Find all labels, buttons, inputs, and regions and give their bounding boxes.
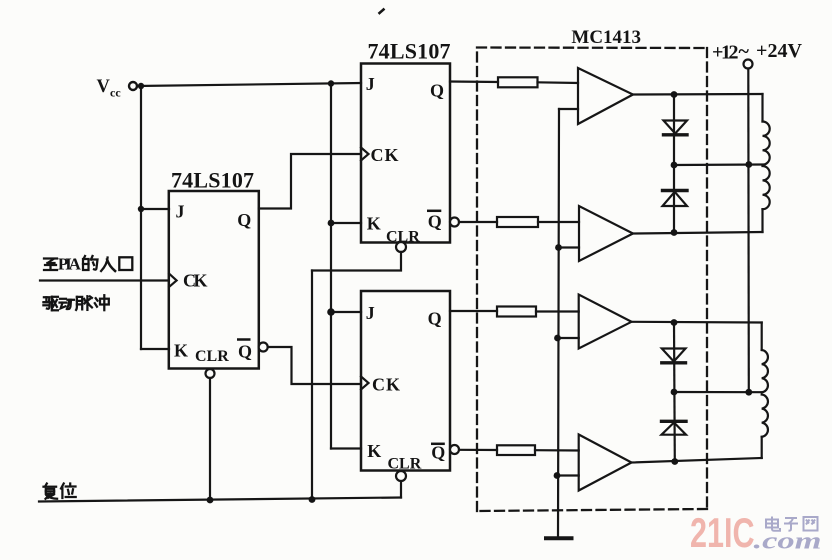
svg-text:Q: Q bbox=[431, 442, 445, 462]
svg-text:CLR: CLR bbox=[386, 229, 420, 246]
svg-text:MC1413: MC1413 bbox=[571, 27, 641, 48]
svg-text:PIA: PIA bbox=[58, 255, 82, 274]
svg-text:~: ~ bbox=[739, 41, 750, 63]
svg-text:74LS107: 74LS107 bbox=[171, 168, 254, 193]
svg-text:K: K bbox=[174, 341, 188, 361]
svg-text:CLR: CLR bbox=[388, 456, 422, 473]
svg-text:J: J bbox=[366, 74, 375, 94]
svg-text:21IC: 21IC bbox=[690, 509, 755, 556]
svg-text:.com: .com bbox=[754, 529, 822, 555]
svg-text:CLR: CLR bbox=[195, 348, 229, 365]
svg-text:CK: CK bbox=[371, 145, 399, 165]
svg-text:Q: Q bbox=[428, 211, 442, 231]
svg-text:K: K bbox=[367, 441, 381, 461]
svg-text:Q: Q bbox=[237, 210, 251, 230]
svg-text:74LS107: 74LS107 bbox=[368, 39, 451, 64]
svg-text:cc: cc bbox=[110, 86, 121, 100]
svg-text:Q: Q bbox=[428, 308, 442, 328]
svg-text:CK: CK bbox=[183, 271, 208, 291]
svg-text:Q: Q bbox=[430, 80, 444, 100]
svg-text:K: K bbox=[367, 214, 381, 234]
svg-text:V: V bbox=[97, 77, 111, 97]
svg-text:Q: Q bbox=[238, 342, 252, 362]
svg-text:+24V: +24V bbox=[756, 40, 803, 62]
svg-text:J: J bbox=[366, 303, 375, 323]
svg-text:CK: CK bbox=[372, 375, 400, 395]
svg-text:+12: +12 bbox=[712, 41, 739, 63]
svg-text:J: J bbox=[176, 202, 185, 222]
